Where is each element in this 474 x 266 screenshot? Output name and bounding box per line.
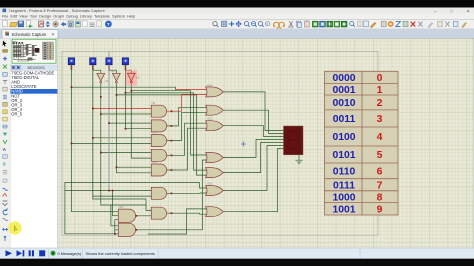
svg-text:3: 3 [377, 114, 383, 125]
AND gate A2 [151, 120, 166, 132]
svg-text:0001: 0001 [332, 85, 355, 96]
wire crossover c2 [125, 93, 206, 170]
wire red A1 first input [93, 107, 152, 109]
svg-text:?: ? [266, 22, 268, 26]
wire A5 first input [116, 166, 151, 168]
svg-text:Schematic Capture: Schematic Capture [12, 32, 48, 37]
ground [296, 155, 303, 164]
logicstate input D2 [90, 58, 96, 70]
gate ref labels [119, 83, 213, 209]
wire red to O1 input 1 [176, 88, 207, 90]
right edge subtle strip [472, 38, 474, 248]
svg-text:Shows the currently loaded com: Shows the currently loaded components [86, 251, 155, 256]
table thumbnail [43, 42, 54, 60]
wire stub to sheet top [108, 52, 110, 58]
sheet border [62, 52, 378, 236]
wire A3 first input [93, 137, 152, 139]
minimap panel [11, 38, 58, 64]
wire NOT U3 output vertical [131, 83, 151, 158]
svg-text:0010: 0010 [332, 98, 355, 109]
left vertical toolbar [0, 38, 11, 248]
AND gate A1 [151, 105, 166, 117]
svg-text:9: 9 [377, 205, 383, 216]
svg-text:0000: 0000 [332, 73, 355, 84]
AND gate A6 [151, 187, 166, 199]
svg-text:0101: 0101 [332, 150, 355, 161]
truth table [325, 71, 399, 215]
wire O3 output to display [223, 126, 283, 137]
wire NOT U2 output vertical [116, 83, 151, 173]
menu bar [0, 14, 474, 20]
wire A6 output to O6 [167, 192, 207, 194]
wire B2 output channel [136, 160, 206, 230]
svg-text:–: – [434, 8, 437, 13]
svg-text:U1: U1 [105, 79, 109, 83]
wire A3 second input (long) [71, 142, 151, 144]
yellow cursor highlight overlay [8, 221, 21, 234]
wire O5 output to display [223, 143, 283, 173]
svg-text:?: ? [107, 22, 110, 27]
svg-text:S: S [3, 161, 6, 166]
svg-text:0011: 0011 [333, 114, 356, 125]
AND gate B1 [118, 209, 135, 222]
bottom black letterbox bar [0, 259, 474, 266]
OR gate O1 [206, 87, 224, 97]
NOT gate U1 [97, 73, 109, 83]
wire A6 second input [93, 195, 152, 197]
wire O7 output to display [223, 149, 283, 212]
logicstate input D1 [106, 58, 112, 70]
wire input D1 vertical (grey selected) [108, 65, 110, 191]
svg-text:U16: U16 [207, 117, 213, 121]
svg-text:U8: U8 [152, 101, 156, 105]
wire A4 first input [101, 152, 152, 154]
AND gate A3 [151, 135, 166, 147]
devices list [11, 70, 58, 248]
logicstate input D0 [122, 58, 128, 70]
svg-text:6: 6 [377, 167, 383, 178]
wire A4 output to O3 [167, 123, 207, 155]
svg-text:File Edit View Tool Design: File Edit View Tool Design Graph Debug L… [2, 14, 135, 19]
7-segment display [284, 126, 304, 155]
svg-text:7: 7 [377, 180, 383, 191]
svg-text:1000: 1000 [332, 192, 355, 203]
AND gate A4 [151, 149, 166, 161]
tab bar [0, 29, 474, 38]
wire D0 to NOT U3 [125, 65, 131, 74]
wire crossover c5 [65, 183, 207, 188]
svg-text:7segment - Proteus 8 Professio: 7segment - Proteus 8 Professional - Sche… [9, 8, 105, 13]
display blob [35, 48, 39, 53]
svg-text:0: 0 [377, 73, 383, 84]
OR gate O3 [206, 121, 224, 131]
wire A2 first input [109, 122, 151, 124]
OR gate O5 [206, 168, 224, 178]
wire crossover c3 [116, 95, 206, 175]
AND gate A7 [151, 207, 166, 219]
junction dots [71, 86, 173, 234]
wire long net y190 [65, 183, 151, 234]
NOT gate U3 selected with highlight [126, 70, 140, 86]
origin marker [242, 142, 246, 146]
svg-text:8: 8 [377, 192, 383, 203]
wire branch to B2 input 1 [111, 205, 118, 226]
OR gate O6 [206, 186, 224, 196]
wire red A1 output to O1 input 2 [167, 94, 207, 111]
svg-text:4: 4 [377, 132, 383, 143]
title bar [0, 8, 474, 14]
svg-text:Q: Q [69, 22, 73, 27]
wire A5 output to O3 [167, 128, 207, 170]
svg-text:0100: 0100 [332, 132, 355, 143]
wire input D0 vertical [125, 70, 151, 129]
svg-text:5: 5 [377, 150, 383, 161]
svg-text:1: 1 [377, 85, 383, 96]
wire D2 to NOT U1 [93, 70, 101, 73]
logicstate input D3 [68, 58, 74, 70]
wire B1 output to A7 [136, 215, 151, 217]
status bar [0, 248, 474, 259]
wire O2 output to display [223, 110, 283, 133]
wire O4 output to display [223, 140, 283, 158]
schematic canvas [58, 38, 474, 248]
wire crossover c1 [131, 91, 206, 155]
svg-text:0 Message(s): 0 Message(s) [58, 251, 82, 256]
svg-text:0110: 0110 [333, 167, 356, 178]
wire B1 second input [113, 191, 119, 216]
top black letterbox bar [0, 0, 474, 8]
wire A3 output to O2 [167, 113, 207, 141]
OR gate O4 [206, 153, 224, 163]
svg-text:OR_5: OR_5 [11, 112, 22, 117]
wire O1 output to display [223, 92, 283, 131]
svg-text:U14: U14 [207, 83, 213, 87]
svg-text:U3: U3 [136, 76, 140, 80]
wire input D2 vertical [93, 65, 152, 211]
wire O6 output to display [223, 146, 283, 191]
OR gate O2 [206, 105, 224, 115]
svg-text:0111: 0111 [333, 180, 355, 191]
devices header [11, 65, 58, 71]
wire input D3 vertical [71, 65, 118, 212]
svg-text:2: 2 [377, 98, 383, 109]
NOT gate U2 [111, 69, 120, 83]
wire A7 output to O7 [167, 213, 207, 214]
wire B cluster lower inputs [65, 220, 118, 234]
wire long net y87 [71, 87, 175, 89]
OR gate O7 [206, 207, 224, 217]
svg-text:✕: ✕ [467, 9, 471, 14]
wire D1 to NOT U2 [109, 70, 116, 73]
wire A1 second input [101, 113, 152, 115]
svg-text:✕: ✕ [51, 32, 55, 37]
svg-text:1001: 1001 [332, 205, 355, 216]
AND gate A5 [151, 164, 166, 176]
wire NOT U1 output vertical [101, 83, 146, 205]
svg-text:U2: U2 [111, 69, 115, 73]
svg-text:U19: U19 [207, 182, 213, 186]
wire bottom to O7 [148, 209, 207, 234]
wire A2 output to O2 [167, 108, 207, 126]
AND gate B2 [118, 223, 135, 236]
svg-text:U21: U21 [119, 205, 125, 209]
main toolbar [0, 19, 474, 29]
